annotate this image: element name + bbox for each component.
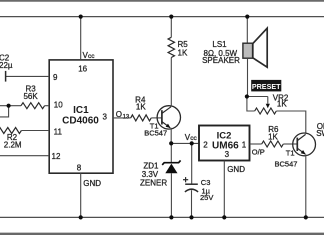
svg-text:PRESET: PRESET: [252, 82, 281, 91]
svg-text:25V: 25V: [200, 193, 213, 202]
svg-text:3.3V: 3.3V: [142, 170, 159, 179]
svg-text:3: 3: [225, 150, 230, 159]
svg-text:2: 2: [203, 140, 208, 149]
svg-text:1K: 1K: [268, 133, 278, 142]
svg-text:1K: 1K: [178, 48, 188, 57]
svg-text:16: 16: [78, 65, 87, 74]
svg-text:T1: T1: [286, 149, 295, 158]
svg-text:ZENER: ZENER: [140, 179, 167, 188]
svg-text:1K: 1K: [136, 102, 146, 111]
svg-text:SWITCH: SWITCH: [316, 129, 324, 138]
svg-text:GND: GND: [227, 165, 245, 174]
svg-text:10: 10: [54, 101, 63, 110]
svg-text:cc: cc: [88, 53, 95, 60]
svg-text:O: O: [116, 110, 122, 119]
svg-text:LS1: LS1: [212, 40, 227, 49]
svg-text:BC547: BC547: [144, 129, 167, 138]
svg-text:12: 12: [52, 152, 61, 161]
svg-text:IC1: IC1: [73, 105, 89, 116]
svg-text:BC547: BC547: [275, 160, 298, 169]
svg-text:9: 9: [53, 73, 58, 82]
svg-text:11: 11: [54, 128, 63, 137]
svg-text:13: 13: [123, 114, 130, 120]
svg-text:8: 8: [77, 163, 82, 172]
svg-text:O/P: O/P: [252, 147, 265, 156]
svg-text:22µ: 22µ: [0, 61, 13, 70]
svg-text:CD4060: CD4060: [62, 115, 99, 126]
svg-text:3: 3: [103, 113, 108, 122]
svg-text:56K: 56K: [23, 92, 38, 101]
svg-text:1: 1: [242, 140, 247, 149]
svg-text:1K: 1K: [277, 100, 287, 109]
svg-text:SPEAKER: SPEAKER: [202, 56, 240, 65]
svg-text:GND: GND: [83, 179, 101, 188]
svg-text:2.2M: 2.2M: [4, 141, 22, 150]
svg-text:cc: cc: [190, 135, 197, 142]
